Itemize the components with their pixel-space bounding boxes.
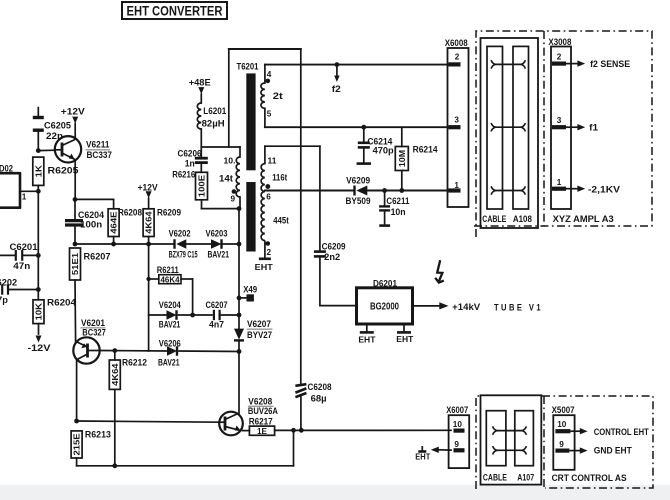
V6209 diode symbol: [356, 186, 367, 196]
A108 inner rect left: [487, 46, 503, 209]
pin 2 dot: [266, 241, 271, 246]
svg-text:BAV21: BAV21: [208, 250, 230, 260]
box: [122, 2, 227, 19]
supply -12V arrow: [36, 336, 42, 343]
svg-text:CABLE: CABLE: [483, 472, 507, 482]
wire: to V6208 base: [77, 421, 220, 422]
svg-text:A108: A108: [513, 214, 532, 224]
svg-text:TUBE V1: TUBE V1: [494, 302, 543, 312]
svg-text:C6201: C6201: [10, 242, 38, 252]
svg-text:X49: X49: [243, 285, 257, 295]
wire: [192, 279, 194, 315]
svg-text:L6201: L6201: [203, 106, 226, 116]
svg-text:1: 1: [22, 193, 27, 202]
wire: [74, 199, 76, 218]
wire: [496, 126, 522, 128]
EHT ground pin2: [264, 241, 266, 259]
svg-text:V6209: V6209: [346, 175, 370, 185]
A107 inner rect left: [486, 411, 506, 466]
svg-text:51E1: 51E1: [71, 252, 80, 275]
svg-text:C6211: C6211: [386, 196, 409, 206]
svg-text:V6202: V6202: [169, 228, 191, 238]
cable connector fork: [493, 426, 497, 434]
svg-text:R6209: R6209: [157, 208, 181, 218]
wire: [113, 199, 115, 208]
svg-text:116t: 116t: [272, 173, 287, 183]
R6214 box: [395, 147, 408, 171]
wire: [384, 191, 386, 206]
wire: R6204 to -12V: [38, 324, 40, 334]
wire: [200, 129, 202, 147]
wire: R6216 bottom to winding bottom: [202, 208, 240, 210]
A107 outer box: [481, 395, 542, 484]
wire: [200, 94, 202, 103]
wire: emitter rail to X6007 pin 10: [275, 429, 451, 431]
wire: [264, 65, 266, 83]
svg-text:f2 SENSE: f2 SENSE: [590, 59, 630, 69]
svg-text:C6206: C6206: [178, 148, 202, 158]
svg-text:-12V: -12V: [28, 343, 52, 354]
wire: [384, 212, 386, 225]
junction: [146, 277, 150, 281]
A108 inner rect right: [513, 46, 529, 209]
wire: [179, 350, 239, 353]
arrow f2: [334, 76, 340, 83]
junction R6214 bottom: [399, 188, 404, 193]
X6008 box: [448, 48, 469, 207]
junction C6208: [299, 428, 304, 433]
svg-text:1K: 1K: [34, 165, 43, 177]
svg-text:14t: 14t: [219, 173, 233, 183]
pin 4 dot: [266, 79, 271, 84]
2t coil: [261, 83, 265, 108]
wire: [113, 237, 115, 245]
svg-text:BAV21: BAV21: [159, 320, 181, 330]
svg-text:10K: 10K: [35, 303, 44, 320]
wire: [76, 458, 78, 466]
svg-text:BC337: BC337: [87, 150, 113, 160]
wire: [401, 127, 403, 146]
V6202 diode symbol: [176, 239, 186, 249]
svg-text:47n: 47n: [13, 261, 30, 271]
svg-text:f2: f2: [332, 84, 341, 94]
BG2000 box: [357, 288, 413, 324]
svg-text:9: 9: [454, 440, 459, 449]
junction bottom rail: [291, 428, 296, 433]
wire: [336, 65, 338, 76]
svg-text:C6207: C6207: [206, 300, 228, 310]
wire: [239, 297, 247, 299]
svg-text:CONTROL EHT: CONTROL EHT: [594, 427, 650, 437]
junction pin1 wire: [36, 189, 41, 194]
junction R6207 top: [73, 242, 78, 247]
supply +12V arrow 2: [146, 191, 152, 198]
resistor R6212 box: [109, 360, 120, 389]
svg-text:EHT: EHT: [358, 335, 376, 345]
svg-text:2t: 2t: [273, 91, 283, 101]
wire: [148, 244, 150, 351]
svg-text:R6204: R6204: [47, 297, 77, 308]
resistor R6207 box: [70, 248, 81, 280]
wire from R6211 right: [181, 278, 193, 280]
capacitor plates: [1, 284, 3, 294]
wire: [114, 351, 116, 360]
wire between diodes: [186, 243, 211, 245]
wire: rail up to emitter node: [293, 430, 295, 466]
ground EHT left under BG2000: [366, 324, 368, 332]
svg-text:BG2000: BG2000: [370, 302, 399, 313]
diode V6204 BAV21: [167, 310, 177, 320]
wire: [265, 145, 320, 147]
svg-text:A107: A107: [517, 472, 534, 482]
junction R6211 drop: [190, 313, 195, 318]
wire: [265, 64, 449, 66]
svg-text:GND EHT: GND EHT: [594, 446, 633, 456]
svg-text:10M: 10M: [398, 150, 407, 167]
svg-text:CABLE: CABLE: [482, 214, 506, 224]
junction collector node: [237, 349, 242, 354]
svg-text:f1: f1: [589, 122, 598, 132]
wire: [496, 190, 522, 192]
wire to R6211: [149, 278, 159, 280]
dash-dot divider x=544: [543, 31, 545, 226]
capacitor plates: [33, 116, 44, 119]
wire: C6209 to BG2000: [320, 305, 357, 307]
dash-dot module border bottom right: [476, 396, 480, 489]
junction f2 tap: [335, 62, 340, 67]
wire: collector up to row: [238, 352, 240, 415]
svg-text:470p: 470p: [373, 145, 394, 155]
small EHT ground: [421, 446, 423, 452]
wire: [264, 108, 266, 127]
junction C6214 top: [361, 125, 366, 130]
X6007 box: [449, 415, 470, 468]
supply +48E arrow: [198, 87, 204, 94]
resistor R6208 box: [108, 209, 119, 237]
svg-text:10: 10: [453, 420, 463, 429]
scan edge gray band at bottom: [0, 485, 670, 500]
X3008 box: [551, 47, 571, 210]
capacitor plates: [15, 250, 17, 261]
supply +12V arrow: [72, 117, 78, 124]
wire: [300, 397, 302, 431]
junction emitter/R6208 node: [73, 197, 78, 202]
cable connector fork: [522, 426, 526, 434]
svg-text:47p: 47p: [0, 295, 8, 305]
V6203 diode symbol: [211, 239, 222, 249]
wire: left column down: [37, 255, 39, 299]
svg-text:4K64: 4K64: [111, 363, 120, 386]
junction X49: [237, 296, 242, 301]
svg-text:4n7: 4n7: [209, 320, 224, 330]
transformer core bar lower: [246, 182, 255, 252]
wire: R6207 to V6201: [74, 280, 77, 342]
svg-text:68µ: 68µ: [311, 394, 327, 404]
wire: [363, 127, 365, 141]
capacitor C6208 68u (electrolytic): [295, 384, 306, 386]
resistor R6205 box: [33, 157, 44, 185]
svg-text:R6208: R6208: [118, 208, 142, 218]
svg-text:BZX79 C15: BZX79 C15: [169, 250, 198, 260]
svg-text:445t: 445t: [273, 215, 289, 225]
svg-text:R6211: R6211: [157, 265, 179, 275]
pin 9 dot: [232, 189, 237, 194]
svg-text:9: 9: [559, 440, 564, 449]
wire: [200, 147, 202, 156]
svg-text:1n: 1n: [185, 159, 195, 169]
transformer core bar upper: [246, 73, 255, 170]
svg-text:2: 2: [267, 248, 272, 257]
junction: V6211 base node: [36, 148, 41, 153]
svg-text:BC327: BC327: [82, 327, 106, 337]
svg-text:R6216: R6216: [172, 170, 195, 180]
cable connector fork: [493, 446, 497, 454]
L6201 coil: [197, 103, 201, 129]
wire: [23, 254, 38, 256]
wire: [300, 49, 302, 384]
junction C6211: [382, 188, 387, 193]
svg-text:+48E: +48E: [189, 78, 211, 89]
wire: [239, 197, 241, 209]
wire: [37, 132, 39, 151]
wire: V6201 bottom to R6213 node: [76, 360, 78, 421]
svg-text:5: 5: [267, 110, 272, 119]
wire: +12V to V6211 collector: [74, 124, 76, 139]
junction C6202: [36, 287, 41, 292]
dash-dot module border top right: [474, 31, 652, 237]
svg-text:V6211: V6211: [86, 140, 110, 150]
pin 6 dot: [265, 184, 270, 189]
V6207 diode symbol: [234, 329, 244, 340]
svg-text:46K4: 46K4: [161, 275, 181, 284]
junction R6208 bottom: [111, 242, 116, 247]
wire: [9, 289, 38, 291]
svg-text:R6214: R6214: [413, 145, 439, 155]
wire: [439, 449, 451, 451]
wire: [264, 146, 266, 163]
junction winding 9 / vertical: [237, 206, 242, 211]
svg-text:10n: 10n: [391, 207, 406, 217]
svg-text:C6208: C6208: [308, 382, 332, 392]
wire: bottom feedback rail: [77, 465, 294, 467]
X5007 box: [553, 415, 574, 470]
svg-text:X6008: X6008: [445, 38, 468, 48]
svg-text:V6203: V6203: [206, 228, 228, 238]
resistor R6213 box: [71, 431, 82, 458]
svg-text:X3008: X3008: [548, 37, 571, 47]
wire: [497, 430, 522, 432]
svg-text:CRT CONTROL AS: CRT CONTROL AS: [552, 473, 627, 483]
wire: [37, 108, 39, 116]
R6216 box: [196, 172, 208, 200]
svg-text:100n: 100n: [80, 220, 102, 230]
svg-text:T6201: T6201: [237, 61, 260, 72]
resistor R6209 box: [143, 209, 154, 237]
lightning bolt symbol: [437, 260, 442, 281]
capacitor plates: [379, 205, 390, 207]
wire: [201, 200, 203, 209]
svg-text:BYV27: BYV27: [247, 330, 272, 340]
wire: [238, 209, 240, 329]
svg-text:EHT: EHT: [396, 334, 414, 344]
junction diode row / right vertical: [237, 242, 242, 247]
junction R6212 top: [112, 348, 117, 353]
junction R6212 bottom: [112, 463, 117, 468]
svg-text:4: 4: [267, 70, 272, 79]
wire: [0, 173, 20, 208]
cable connector fork: [522, 446, 526, 454]
svg-text:X5007: X5007: [552, 405, 575, 415]
14t coil: [236, 157, 240, 197]
wire: [75, 243, 175, 245]
svg-text:R6212: R6212: [122, 357, 147, 368]
wire: [239, 147, 241, 157]
capacitor plates: [195, 157, 208, 160]
svg-text:+12V: +12V: [138, 182, 158, 192]
cable connector fork: [491, 186, 495, 194]
svg-text:215E: 215E: [73, 433, 82, 456]
svg-text:BY509: BY509: [346, 196, 371, 206]
cable connector fork: [521, 123, 525, 131]
svg-text:1E: 1E: [257, 427, 267, 436]
svg-text:+12V: +12V: [61, 107, 86, 118]
svg-text:C6205: C6205: [44, 121, 71, 131]
svg-text:-2,1KV: -2,1KV: [588, 185, 620, 195]
A108 outer box: [481, 38, 539, 228]
junction R6213/base row: [74, 419, 79, 424]
wire: [363, 149, 365, 163]
transistor V6211 BC337 (NPN): [55, 136, 81, 162]
wire: [74, 227, 76, 244]
wire: loop left vertical: [228, 49, 230, 147]
capacitor plates: [65, 219, 83, 222]
wire: [401, 171, 403, 191]
svg-text:X6007: X6007: [446, 405, 468, 415]
wire: BG2000 output: [413, 305, 441, 307]
svg-text:4K64: 4K64: [145, 211, 154, 234]
wire: [238, 341, 240, 352]
wire: left box pin1 to R6205 column: [20, 190, 38, 192]
wire: [148, 237, 150, 245]
svg-text:C6209: C6209: [322, 242, 346, 252]
ground EHT right under BG2000: [403, 324, 405, 332]
R6217 box: [249, 426, 274, 435]
wire: V6211 emitter down: [74, 160, 76, 199]
wire: [319, 146, 321, 250]
svg-text:6: 6: [266, 192, 271, 201]
wire: to R6208 top: [75, 198, 114, 200]
wire: [319, 258, 321, 306]
svg-text:EHT: EHT: [415, 452, 430, 461]
resistor R6204 box: [33, 300, 44, 324]
116t/445t coil: [261, 164, 265, 241]
junction row/right vertical: [237, 313, 242, 318]
cable connector fork: [521, 186, 525, 194]
svg-text:10: 10: [557, 420, 567, 429]
wire: R6205 down left column: [37, 185, 39, 255]
wire to right vertical: [223, 243, 239, 245]
wire: R6212 bottom to bottom rail: [114, 389, 116, 465]
svg-text:BUV26A: BUV26A: [248, 406, 278, 416]
wire: [148, 198, 150, 209]
cable connector fork: [491, 60, 495, 68]
A107 inner rect right: [515, 411, 534, 466]
svg-text:3: 3: [557, 116, 562, 125]
svg-text:11: 11: [268, 156, 277, 166]
svg-text:3: 3: [454, 116, 459, 125]
svg-text:V6207: V6207: [247, 319, 271, 329]
svg-text:1: 1: [557, 178, 562, 187]
svg-text:100E: 100E: [198, 174, 207, 197]
wire: base of V6211: [38, 149, 55, 151]
svg-text:R6213: R6213: [85, 430, 111, 441]
wire: [179, 314, 212, 316]
wire: [496, 63, 522, 65]
capacitor plates: [213, 310, 215, 320]
wire: [243, 430, 250, 432]
svg-text:EHT: EHT: [255, 262, 274, 272]
svg-text:EHT CONVERTER: EHT CONVERTER: [127, 4, 223, 19]
junction R6209 bottom: [146, 242, 151, 247]
wire V6201 base row: [100, 350, 167, 353]
svg-text:V6204: V6204: [159, 300, 182, 310]
svg-text:D02: D02: [0, 163, 13, 173]
cable connector fork: [521, 60, 525, 68]
wire: [149, 314, 167, 316]
junction C6201: [36, 253, 41, 258]
wire: [221, 314, 239, 316]
wire: [265, 126, 449, 128]
cable connector fork: [491, 123, 495, 131]
svg-text:R6207: R6207: [84, 251, 111, 262]
svg-text:+14kV: +14kV: [452, 302, 481, 313]
diode V6206 BAV21: [167, 346, 177, 356]
wire: [497, 449, 522, 451]
svg-text:2: 2: [557, 52, 562, 61]
wire: [265, 190, 354, 192]
capacitor plates: [314, 250, 326, 253]
capacitor plates: [358, 142, 370, 145]
R6211 box: [159, 275, 181, 284]
wire: [229, 48, 301, 50]
svg-text:2n2: 2n2: [324, 252, 340, 262]
svg-text:R6217: R6217: [249, 416, 273, 426]
wire: [200, 165, 202, 173]
wire: [0, 254, 15, 256]
wire: [365, 190, 449, 192]
svg-text:82µH: 82µH: [202, 118, 225, 128]
svg-text:2: 2: [455, 53, 460, 62]
svg-text:XYZ AMPL A3: XYZ AMPL A3: [553, 214, 614, 224]
svg-text:9: 9: [231, 195, 236, 204]
wire: node L6201/C6206/pin10: [201, 146, 240, 148]
svg-text:10.: 10.: [224, 156, 236, 166]
svg-text:BAV21: BAV21: [158, 358, 180, 368]
